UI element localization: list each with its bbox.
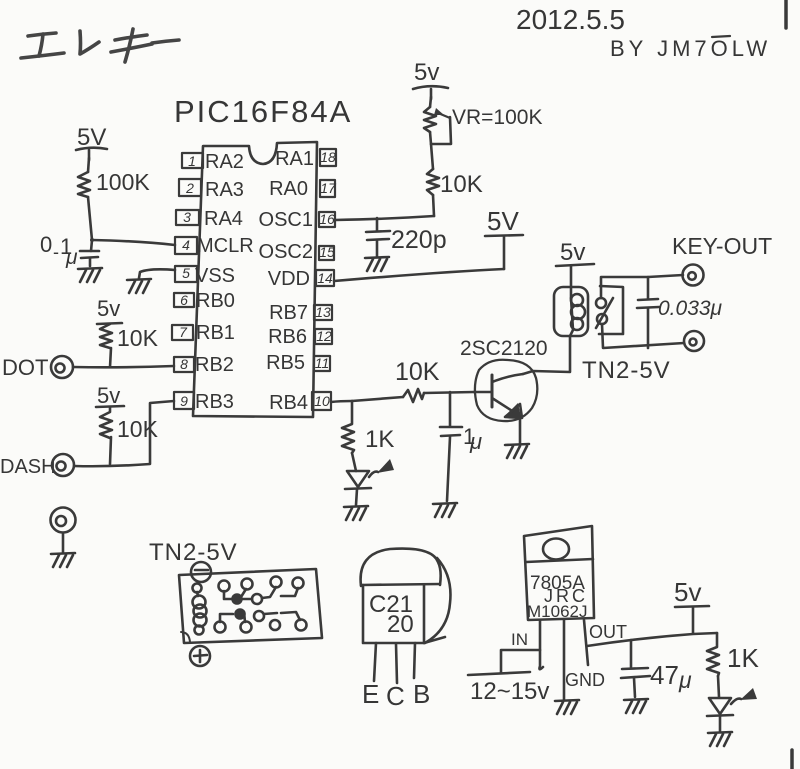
wire collector to relay coil	[523, 336, 570, 374]
svg-text:1: 1	[188, 153, 196, 169]
svg-text:13: 13	[315, 304, 331, 320]
svg-text:10K: 10K	[440, 171, 483, 198]
resistor 10K (oscillator)	[427, 169, 439, 195]
svg-text:M1062J: M1062J	[527, 602, 587, 621]
svg-text:5V: 5V	[487, 206, 519, 236]
pin 12 box	[315, 329, 332, 344]
relay pinout links upper	[224, 591, 233, 599]
relay contact arm	[596, 298, 613, 328]
pin 4 box	[175, 237, 197, 254]
corner mark top right	[784, 0, 788, 28]
wire contact to KEY-OUT top	[601, 275, 683, 298]
relay coil loops	[571, 294, 583, 306]
regulator mounting hole	[543, 539, 569, 560]
svg-text:RB5: RB5	[266, 352, 305, 374]
svg-text:RB4: RB4	[269, 392, 308, 414]
svg-text:2SC2120: 2SC2120	[460, 337, 548, 360]
svg-text:PIC16F84A: PIC16F84A	[174, 94, 352, 129]
svg-text:OUT: OUT	[589, 622, 627, 642]
svg-text:RB3: RB3	[195, 391, 234, 413]
wire pin 16 OSC1	[335, 216, 434, 220]
wire emitter to ground	[519, 417, 522, 443]
ground (regulator GND)	[555, 700, 579, 714]
wire 100K to MCLR node	[88, 197, 92, 240]
ground (LED)	[344, 506, 368, 520]
resistor 10K (base)	[403, 389, 424, 402]
relay pinout body	[179, 569, 322, 643]
svg-text:-: -	[53, 242, 59, 262]
transistor package side	[425, 558, 450, 643]
pin 2 box	[179, 179, 201, 196]
potentiometer VR=100K	[424, 107, 436, 132]
wire DOT to pin 8 RB2	[73, 366, 174, 367]
wire node to pin 4 MCLR	[92, 240, 175, 245]
node MCLR junction	[90, 238, 94, 242]
svg-text:VSS: VSS	[195, 265, 235, 287]
ground (47u)	[624, 699, 648, 713]
relay pinout coil chain	[193, 584, 202, 593]
svg-text:KEY-OUT: KEY-OUT	[672, 233, 772, 259]
wire 1K to LED	[352, 453, 356, 471]
svg-text:10: 10	[314, 393, 330, 409]
svg-text:B: B	[413, 679, 430, 709]
terminal KEY-OUT upper	[683, 265, 704, 286]
svg-text:47: 47	[650, 660, 679, 690]
IC U1 body outline with notch	[193, 142, 317, 417]
node RB4 junction	[352, 397, 403, 401]
svg-text:11: 11	[315, 355, 330, 371]
wire 10K to base node	[424, 392, 474, 393]
svg-text:15: 15	[319, 244, 335, 260]
terminal GND (bottom left)	[51, 508, 76, 533]
wire 5V to 100K	[88, 158, 89, 172]
svg-text:DASH: DASH	[0, 456, 56, 478]
svg-text:μ: μ	[65, 246, 78, 269]
wire pin 10 RB4	[331, 401, 352, 402]
svg-text:C: C	[386, 681, 405, 711]
LED D1	[347, 471, 369, 487]
ground (1u cap)	[433, 503, 457, 517]
svg-text:MCLR: MCLR	[197, 235, 254, 257]
svg-text:5v: 5v	[560, 239, 585, 266]
capacitor 220p	[376, 218, 379, 231]
svg-text:VDD: VDD	[268, 268, 310, 290]
svg-text:5v: 5v	[674, 577, 701, 607]
relay K1 coil box	[554, 287, 588, 336]
regulator IN leg	[539, 620, 543, 669]
transistor package legs	[374, 643, 376, 681]
pin 6 box	[174, 293, 194, 307]
wire DASH to pin 9 RB3	[74, 401, 174, 466]
svg-text:18: 18	[320, 149, 336, 165]
capacitor 47u	[630, 640, 633, 667]
svg-text:μ: μ	[469, 429, 482, 454]
wire IN to 12-15V supply	[501, 650, 540, 673]
wire OUT rail	[587, 633, 717, 646]
relay pinout plus terminal	[190, 646, 210, 666]
ground (220p)	[365, 257, 389, 271]
pin 16 box	[319, 212, 335, 227]
svg-text:1K: 1K	[727, 643, 759, 673]
svg-text:RB6: RB6	[268, 326, 307, 348]
svg-text:RB2: RB2	[195, 354, 234, 376]
svg-text:10K: 10K	[117, 416, 159, 442]
svg-text:VR=100K: VR=100K	[452, 106, 542, 129]
wire 10K to DASH line	[110, 437, 111, 464]
relay contact bracket	[599, 286, 623, 334]
transistor package front face	[361, 584, 440, 585]
svg-text:RA2: RA2	[205, 151, 244, 173]
wire pin 5 VSS to ground	[139, 269, 175, 278]
resistor 1K (LED)	[342, 401, 354, 453]
svg-text:100K: 100K	[96, 169, 150, 195]
svg-text:2012.5.5: 2012.5.5	[516, 4, 625, 35]
svg-text:6: 6	[180, 292, 188, 308]
wire VDD 5V to pin 14	[334, 269, 504, 281]
relay pinout bottom row pins	[215, 622, 226, 633]
svg-text:3: 3	[183, 209, 191, 225]
ground (GND terminal)	[51, 553, 75, 567]
wire 10K to DOT line	[110, 348, 111, 367]
svg-text:OSC1: OSC1	[259, 209, 313, 231]
wire GND terminal to ground	[62, 533, 65, 553]
svg-text:220p: 220p	[391, 226, 447, 254]
pin 18 box	[320, 149, 336, 166]
regulator OUT leg	[584, 620, 588, 665]
ground (VSS)	[127, 279, 151, 293]
ground (0.1u cap)	[78, 268, 102, 282]
pin 5 box	[175, 266, 197, 282]
ground (power LED)	[708, 732, 732, 746]
supply 12-15V bar	[468, 672, 530, 675]
svg-text:9: 9	[180, 393, 188, 409]
svg-text:TN2-5V: TN2-5V	[582, 357, 671, 384]
svg-text:0: 0	[40, 232, 52, 257]
svg-text:14: 14	[317, 270, 333, 286]
relay pinout junction dots	[233, 595, 242, 604]
wire LED to ground	[356, 489, 357, 505]
svg-text:12~15v: 12~15v	[470, 678, 549, 705]
wire 10K to OSC1 line	[433, 195, 434, 216]
svg-text:BY JM7OLW: BY JM7OLW	[610, 36, 771, 61]
relay pinout top row pins	[219, 581, 230, 592]
svg-text:E: E	[362, 679, 379, 709]
svg-text:RA3: RA3	[205, 179, 244, 201]
svg-text:8: 8	[180, 356, 188, 372]
svg-text:7: 7	[179, 324, 188, 340]
resistor 10K (DOT pullup)	[100, 324, 112, 348]
wire 5V to VR	[430, 97, 431, 107]
svg-text:GND: GND	[565, 670, 605, 690]
svg-text:2: 2	[185, 180, 194, 196]
svg-text:12: 12	[316, 328, 332, 344]
wire LED to ground	[719, 716, 722, 731]
pin 17 box	[320, 180, 335, 197]
relay pinout links lower	[220, 614, 233, 622]
pin 13 box	[314, 305, 332, 320]
regulator U2 7805A package	[524, 526, 594, 620]
resistor 10K (DASH pullup)	[100, 407, 112, 438]
capacitor 1u (base)	[449, 392, 452, 426]
ground (emitter)	[505, 444, 529, 458]
svg-text:RA0: RA0	[269, 178, 308, 200]
terminal KEY-OUT lower	[684, 331, 704, 351]
relay pinout minus terminal	[191, 562, 211, 582]
wire VR to 10K	[430, 132, 433, 169]
relay contact circles	[596, 298, 606, 308]
svg-text:4: 4	[182, 237, 190, 253]
svg-text:5v: 5v	[97, 383, 120, 408]
pin 9 box	[174, 392, 194, 409]
svg-text:5: 5	[182, 265, 190, 281]
svg-text:5v: 5v	[97, 296, 120, 321]
svg-text:DOT: DOT	[2, 355, 48, 380]
pin 3 box	[176, 210, 199, 225]
corner mark bottom right	[790, 750, 794, 769]
svg-text:RB1: RB1	[196, 322, 235, 344]
svg-text:10K: 10K	[395, 358, 440, 386]
svg-text:5v: 5v	[414, 59, 439, 86]
regulator GND leg	[563, 620, 566, 699]
pin 8 box	[174, 357, 194, 372]
IC right pin labels	[259, 148, 314, 414]
svg-text:0.033μ: 0.033μ	[658, 297, 723, 320]
relay pinout middle pins	[252, 594, 262, 604]
pin 14 box	[316, 270, 334, 286]
wire contact to KEY-OUT bottom	[602, 324, 684, 348]
pin 11 box	[314, 356, 330, 371]
resistor 100K (MCLR pullup)	[78, 172, 90, 197]
svg-text:10K: 10K	[117, 325, 159, 351]
svg-text:TN2-5V: TN2-5V	[149, 539, 238, 566]
svg-text:RA1: RA1	[275, 148, 314, 170]
svg-text:OSC2: OSC2	[259, 241, 313, 263]
capacitor 0.033u	[647, 277, 650, 299]
LED D2 (power)	[709, 698, 731, 714]
wire 1K to LED	[718, 676, 719, 697]
svg-text:17: 17	[320, 180, 337, 196]
svg-text:IN: IN	[511, 630, 528, 649]
pin 7 box	[172, 325, 193, 340]
transistor package 2SC2120 (bottom) dome	[361, 549, 441, 586]
capacitor 0.1u (MCLR)	[91, 240, 92, 251]
title エレキー (handwritten katakana)	[21, 29, 179, 62]
svg-text:1K: 1K	[365, 426, 394, 453]
pin 15 box	[319, 246, 334, 260]
pin 10 box	[312, 392, 331, 410]
svg-text:μ: μ	[678, 667, 692, 693]
svg-text:RB0: RB0	[196, 290, 235, 312]
svg-text:20: 20	[387, 611, 414, 638]
svg-text:16: 16	[319, 211, 335, 227]
svg-text:RA4: RA4	[204, 208, 243, 230]
pin 1 box	[182, 153, 203, 168]
svg-text:RB7: RB7	[269, 302, 308, 324]
resistor 1K (power LED)	[707, 633, 719, 676]
